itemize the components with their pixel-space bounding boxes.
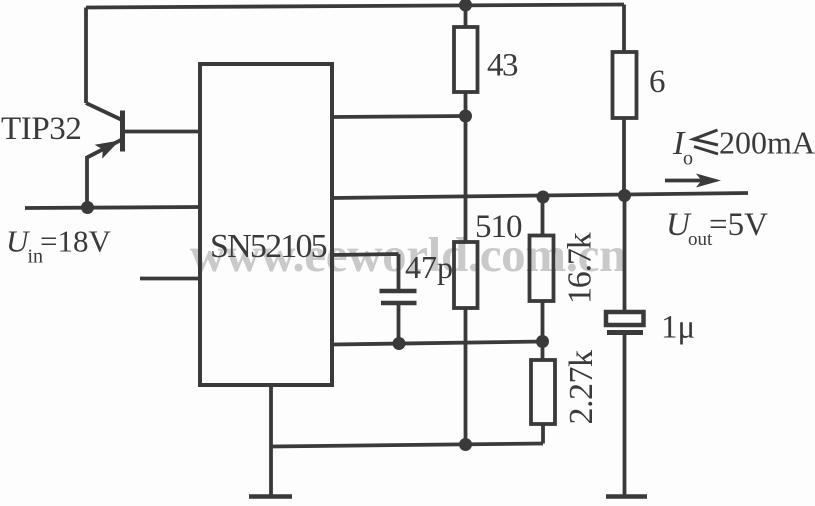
svg-text:47p: 47p [405,249,453,285]
svg-text:510: 510 [475,209,522,245]
node junction output / 16.7k [537,191,550,204]
capacitor C2 1u top plate [606,312,644,325]
arrow output current [665,179,703,183]
op-amp U1 SN52105 box [200,64,332,385]
resistor R3 6 [613,52,637,118]
wire resistor 6 to output line [622,118,626,196]
svg-text:200mA: 200mA [719,125,815,161]
svg-text:1μ: 1μ [661,310,695,346]
capacitor C1 47p top plate [380,289,417,294]
wire Uin input line [25,207,201,208]
wire IC bottom lead [269,385,273,496]
wire IC right to 43-resistor node [332,116,466,117]
svg-text:TIP32: TIP32 [1,111,82,147]
label Uout=5V [666,207,768,250]
wire IC to cap 47p [332,254,399,290]
wire feedback line IC to divider [332,342,543,345]
wire resistor 510 to bottom rail [464,308,468,444]
wire left vertical from top rail [84,8,88,104]
ground IC [249,494,292,499]
svg-text:o: o [683,148,693,170]
wire 16.7k to divider node [541,301,545,342]
transistor Q1 TIP32 collector lead [86,103,121,120]
wire output node to 16.7k [541,197,545,236]
svg-text:43: 43 [487,48,518,84]
wire stub into IC left [140,277,200,281]
transistor Q1 emitter arrow (PNP) [95,141,120,159]
wire top rail [86,5,624,8]
node junction divider [536,335,549,348]
transistor Q1 emitter lead [87,140,121,208]
wire divider node to 2.27k [541,342,545,361]
node junction feedback / 47p [393,337,406,350]
node junction emitter/input [81,201,94,214]
ground cap 1u [606,494,647,499]
label Io<=200mA [672,125,815,170]
resistor R5 2.27k [531,360,555,424]
node junction top rail / 43 [459,0,472,12]
svg-text:=18V: =18V [40,224,111,259]
svg-text:SN52105: SN52105 [210,228,327,265]
resistor R4 16.7k [530,236,554,302]
wire 47p to feedback node [397,303,401,344]
svg-text:6: 6 [649,64,666,100]
capacitor C2 1u bottom plate [607,330,643,335]
wire base to IC [122,130,201,134]
wire output node to cap 1u [623,196,627,313]
label Uin=18V [6,224,111,268]
less-or-equal symbol [694,130,719,145]
wire top rail to resistor 43 [464,5,468,27]
resistor R2 510 [454,242,478,308]
transistor Q1 base bar [120,111,125,152]
svg-text:=5V: =5V [709,207,768,243]
wire bottom rail [271,444,543,447]
svg-text:2.27k: 2.27k [563,350,600,425]
wire top rail right corner down [622,5,626,53]
node junction bottom rail / 510 [459,438,472,451]
svg-text:16.7k: 16.7k [562,232,599,304]
wire output line [332,193,748,198]
wire cap 1u to ground [623,335,627,498]
node junction 43 / IC wire [459,110,472,123]
capacitor C1 47p bottom plate [381,301,417,306]
node junction output / cap 1u [618,189,631,202]
resistor R1 43 [454,27,478,92]
wire 2.27k to bottom rail [541,424,545,444]
wire resistor 43 to resistor 510 [464,92,468,242]
